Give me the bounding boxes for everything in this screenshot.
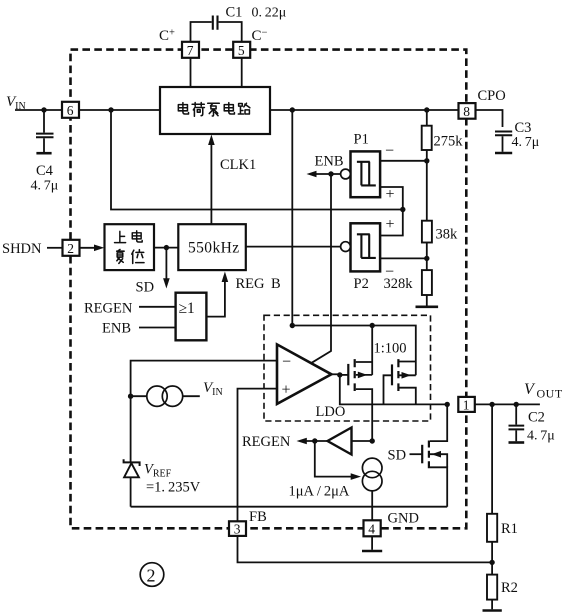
svg-text:CPO: CPO: [478, 88, 506, 104]
node CPO-275k branch: [424, 107, 429, 112]
bubble P2 output: [341, 242, 351, 252]
transistor M2: [392, 359, 416, 404]
buffer REGEN: [328, 428, 352, 455]
pin 3: [229, 521, 246, 536]
wire VOUT right of pin1: [475, 403, 540, 405]
svg-text:+: +: [386, 186, 395, 203]
inner LDO dashed box: [264, 315, 431, 421]
ground 328k: [416, 305, 439, 308]
wire VIN sense: left vertical and horizontal to comparators: [111, 110, 403, 210]
svg-text:C4: C4: [36, 163, 54, 179]
svg-text:5: 5: [238, 43, 245, 58]
svg-text:6: 6: [67, 103, 74, 118]
wire to P1 plus input: [380, 187, 403, 210]
svg-text:REG: REG: [236, 276, 266, 292]
svg-text:FB: FB: [249, 509, 267, 525]
wire POR to 550kHz: [154, 247, 178, 249]
label 上电复位: [115, 231, 145, 264]
wire opamp minus input loop: [131, 361, 277, 462]
svg-text:=1. 235V: =1. 235V: [146, 480, 201, 496]
figure number circled 2: [140, 563, 164, 587]
node P1 minus tap: [424, 158, 429, 163]
svg-text:GND: GND: [388, 511, 419, 527]
capacitor C4: [36, 110, 54, 153]
svg-text:C2: C2: [528, 410, 545, 426]
svg-text:SD: SD: [388, 448, 407, 464]
zener VREF: [124, 459, 140, 507]
svg-text:C1: C1: [226, 5, 243, 21]
node SD branch: [164, 245, 169, 250]
svg-text:4: 4: [368, 522, 375, 537]
capacitor C1 top loop: [191, 16, 242, 43]
svg-text:4. 7μ: 4. 7μ: [512, 135, 540, 150]
wire ENB output arrow: [314, 173, 341, 175]
hysteresis symbol P2: [357, 234, 376, 258]
svg-text:−: −: [282, 354, 291, 371]
ground R2: [483, 609, 502, 612]
node P1P2 plus junction: [400, 207, 405, 212]
capacitor C3: [495, 132, 512, 154]
svg-text:2: 2: [147, 566, 156, 586]
wire P2 minus input: [380, 257, 427, 259]
wire to P2 plus input: [380, 210, 403, 236]
wire OR output to 550kHz with up arrow: [206, 279, 225, 317]
node P2 minus tap: [424, 256, 429, 261]
svg-text:LDO: LDO: [316, 404, 346, 420]
svg-text:0. 22μ: 0. 22μ: [252, 6, 287, 21]
svg-text:4. 7μ: 4. 7μ: [31, 179, 59, 194]
oscillator 550kHz box: [178, 224, 246, 270]
wire buffer output REGEN arrow: [305, 440, 328, 442]
svg-text:B: B: [271, 276, 281, 292]
capacitor C2: [509, 404, 525, 442]
pin 8: [459, 103, 476, 119]
comparator P1 box: [351, 151, 381, 197]
wire REGEN to OR: [139, 306, 176, 308]
pin 1: [458, 397, 475, 413]
svg-text:4. 7μ: 4. 7μ: [527, 429, 555, 444]
wire charge pump to pin 8: [270, 109, 459, 111]
resistor 38k: [422, 161, 432, 259]
node ENB-LDO branch: [328, 171, 333, 176]
resistor R1: [487, 404, 497, 562]
svg-text:C3: C3: [515, 120, 532, 136]
wire ENB to OR: [139, 327, 176, 329]
svg-text:8: 8: [463, 104, 470, 119]
wire SD down arrow: [165, 248, 167, 280]
svg-text:REGEN: REGEN: [84, 301, 133, 317]
OR gate box: [176, 293, 207, 341]
svg-text:≥1: ≥1: [179, 300, 195, 317]
svg-text:P2: P2: [354, 276, 369, 292]
op-amp U2 LDO error amp: [277, 344, 331, 404]
pin 6: [62, 102, 79, 118]
pin 2: [63, 240, 80, 256]
node FB divider: [489, 560, 494, 565]
svg-text:3: 3: [234, 522, 241, 537]
wire SHDN to pin2: [47, 247, 63, 249]
svg-text:275k: 275k: [434, 134, 464, 150]
wire 550kHz output to P2 bubble: [246, 246, 341, 248]
outer IC dashed border: [71, 50, 467, 529]
wire P1 minus input: [380, 160, 427, 162]
node CPO-LDO branch: [290, 107, 295, 112]
svg-text:+: +: [386, 216, 395, 233]
pin 4: [364, 520, 381, 536]
svg-text:−: −: [385, 143, 394, 160]
current source from VIN: [147, 386, 167, 406]
wire opamp plus input from FB: [238, 389, 278, 522]
resistor 328k: [422, 258, 432, 305]
wire opamp output to gates: [331, 373, 339, 375]
svg-text:550kHz: 550kHz: [188, 240, 239, 257]
transistor Q1 SD switch: [410, 404, 448, 506]
svg-text:38k: 38k: [436, 227, 459, 243]
wire gate tie low route: [340, 375, 447, 405]
svg-text:−: −: [385, 264, 394, 281]
svg-text:SD: SD: [136, 280, 155, 296]
svg-text:R1: R1: [501, 521, 518, 537]
wire bottom return line: [131, 506, 448, 508]
wire pin6 to charge pump: [79, 109, 160, 111]
node VOUT-SD: [445, 402, 450, 407]
wire ENB down to LDO enable: [311, 174, 331, 363]
svg-text:SHDN: SHDN: [2, 241, 42, 257]
wire pin8 to C3: [475, 110, 502, 127]
wire CLK1 vertical with up arrow: [210, 139, 212, 224]
charge pump box U1: [160, 87, 270, 134]
resistor 275k: [422, 110, 432, 161]
svg-text:ENB: ENB: [102, 321, 131, 337]
rail inside LDO box: [292, 326, 416, 376]
svg-text:R2: R2: [501, 580, 518, 596]
bubble P1 output: [341, 169, 351, 179]
current source 1uA/2uA: [362, 458, 382, 478]
pin 5: [233, 42, 250, 58]
svg-text:P1: P1: [354, 132, 369, 148]
svg-text:1: 1: [463, 397, 470, 412]
wire pin3 down to FB line: [238, 536, 493, 563]
hysteresis symbol P1: [357, 162, 376, 186]
wire VIN main line: [15, 109, 62, 111]
svg-text:1μA / 2μA: 1μA / 2μA: [289, 484, 350, 500]
wire buffer input: [352, 440, 373, 442]
wire pin5 down to charge pump: [241, 58, 243, 87]
node VIN-C4: [41, 107, 46, 112]
resistor R2: [487, 562, 497, 609]
wire pin7 down to charge pump: [190, 58, 192, 87]
comparator P2 box: [351, 223, 381, 271]
svg-text:OUT: OUT: [537, 387, 563, 401]
wire M1 backgate vertical: [371, 326, 373, 375]
svg-text:+: +: [282, 382, 291, 399]
transistor M1: [348, 359, 372, 441]
label 电荷泵电路: [178, 102, 250, 116]
svg-text:CLK1: CLK1: [220, 157, 256, 173]
ground pin4: [371, 536, 373, 549]
svg-text:1:100: 1:100: [374, 341, 407, 357]
wire CPO down-feed to LDO rail: [291, 110, 293, 326]
node VIN branch: [108, 107, 113, 112]
svg-text:2: 2: [67, 241, 74, 256]
power-on-reset box: [105, 224, 155, 270]
wire pin2 to POR with arrow: [80, 247, 97, 249]
pin 7: [182, 42, 199, 58]
svg-text:7: 7: [187, 43, 194, 58]
svg-text:ENB: ENB: [315, 154, 344, 170]
wire REGEN to current source select: [315, 441, 352, 477]
svg-text:REGEN: REGEN: [242, 434, 291, 450]
